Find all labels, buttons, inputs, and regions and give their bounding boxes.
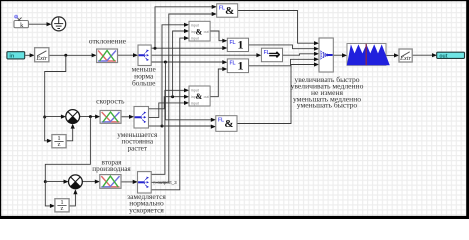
svg-text:Extr: Extr (35, 55, 47, 62)
svg-text:Extr: Extr (399, 55, 411, 62)
svg-text:⇒: ⇒ (269, 48, 281, 63)
svg-text:out: out (204, 30, 209, 34)
svg-text:input: input (191, 36, 199, 40)
svg-text:FL: FL (218, 117, 224, 123)
svg-text:&: & (224, 118, 233, 130)
svg-text:in: in (9, 54, 14, 60)
svg-text:z: z (58, 141, 61, 148)
svg-text:&: & (225, 5, 234, 17)
svg-text:1: 1 (237, 37, 243, 51)
svg-text:input: input (191, 101, 199, 105)
svg-text:уменьшать быстро: уменьшать быстро (297, 101, 358, 110)
svg-text:больше: больше (132, 78, 156, 87)
svg-text:скорость: скорость (96, 97, 125, 106)
svg-text:▷outport_3: ▷outport_3 (154, 180, 177, 185)
svg-text:FL: FL (230, 40, 236, 46)
svg-text:z: z (61, 205, 64, 212)
svg-text:FL: FL (230, 61, 236, 67)
svg-text:out: out (204, 95, 209, 99)
svg-text:ускоряется: ускоряется (129, 205, 164, 214)
svg-text:&: & (196, 92, 203, 101)
svg-text:производная: производная (92, 165, 131, 173)
svg-text:FL: FL (219, 5, 225, 11)
svg-text:растет: растет (128, 144, 148, 152)
svg-text:отклонение: отклонение (89, 36, 127, 45)
svg-text:1: 1 (237, 58, 243, 72)
svg-text:out: out (439, 53, 447, 59)
svg-text:&: & (196, 27, 203, 36)
